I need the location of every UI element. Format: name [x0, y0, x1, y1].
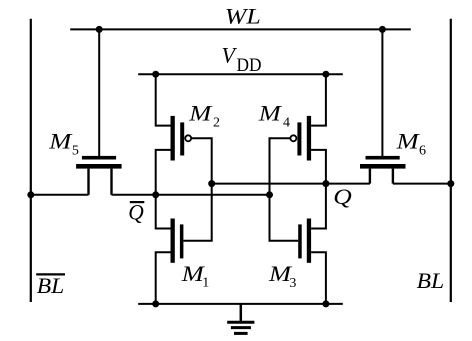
wire BL bit line (right vertical): [450, 19, 452, 302]
wire VDD to M4 source: [311, 74, 326, 125]
wire BL-bar bit line (left vertical): [30, 19, 32, 302]
node WL-M5 junction: [96, 26, 103, 33]
transistor M6 (NMOS access, horizontal): [360, 156, 406, 184]
wire M3 source to ground rail: [311, 252, 326, 304]
svg-text:Q: Q: [128, 200, 144, 225]
svg-text:M: M: [258, 101, 283, 126]
node QBAR to M4 gate junction: [266, 191, 273, 198]
label M2: [188, 101, 220, 131]
wire ground rail (bottom): [138, 303, 343, 305]
node Q junction: [322, 180, 329, 187]
svg-text:V: V: [222, 43, 238, 68]
node VDD-M4 junction: [322, 71, 329, 78]
node M1 source-ground junction: [152, 300, 159, 307]
node QBAR junction: [152, 191, 159, 198]
svg-text:2: 2: [213, 115, 220, 130]
svg-text:6: 6: [419, 144, 426, 159]
label M4: [258, 101, 290, 131]
svg-text:M: M: [395, 129, 420, 154]
wire right inverter input column (M4/M3 gates): [270, 138, 299, 241]
wire VDD rail: [138, 73, 343, 75]
transistor M3 (NMOS right driver): [298, 219, 311, 263]
wire BLbar to M5 left terminal: [31, 194, 89, 196]
svg-text:4: 4: [283, 115, 290, 130]
svg-text:BL: BL: [37, 273, 65, 298]
node VDD-M2 junction: [152, 71, 159, 78]
transistor M4 (PMOS right): [290, 116, 311, 161]
wire node Q column (M4 drain to M3 drain): [311, 150, 326, 229]
wire node Q to M6 left terminal: [326, 183, 370, 185]
wire cross-couple upper (left gates to node Q): [212, 183, 326, 185]
svg-text:DD: DD: [237, 55, 262, 76]
wire M1 source to ground rail: [156, 252, 171, 304]
node BL junction: [447, 180, 454, 187]
svg-text:1: 1: [202, 276, 209, 291]
svg-text:3: 3: [289, 276, 296, 291]
wire VDD to M2 source: [156, 74, 171, 125]
wire M5 right terminal to node QBAR: [112, 194, 156, 196]
label M5: [48, 129, 79, 159]
wire left inverter input column (M2/M1 gates): [183, 138, 211, 241]
node Q to M2 gate junction: [208, 180, 215, 187]
node WL-M6 junction: [379, 26, 386, 33]
wire M6 right terminal to BL: [393, 183, 451, 185]
wire M5 gate column: [98, 29, 100, 156]
label M3: [268, 261, 297, 291]
node M3 source-ground junction: [322, 300, 329, 307]
svg-text:BL: BL: [417, 268, 445, 293]
transistor M1 (NMOS left driver): [171, 219, 184, 263]
svg-text:Q: Q: [333, 184, 352, 209]
node BLbar junction: [27, 191, 34, 198]
wire node QBAR column (M2 drain to M1 drain): [156, 150, 171, 229]
label BLbar (BL with overline): [36, 273, 65, 298]
svg-text:M: M: [188, 101, 213, 126]
label M1: [181, 261, 210, 291]
svg-text:M: M: [48, 129, 73, 154]
label M6: [395, 129, 426, 159]
wire cross-couple lower (node QBAR to right gates): [156, 194, 270, 196]
transistor M5 (NMOS access, horizontal): [76, 156, 122, 195]
svg-text:WL: WL: [225, 4, 261, 29]
label VDD: [222, 43, 262, 76]
wire M6 gate column: [381, 29, 383, 156]
svg-text:5: 5: [72, 143, 79, 158]
wire WL word line rail: [70, 28, 411, 30]
label QBAR (Q with overline): [128, 200, 144, 225]
ground: [227, 304, 254, 334]
transistor M2 (PMOS left): [171, 116, 192, 161]
